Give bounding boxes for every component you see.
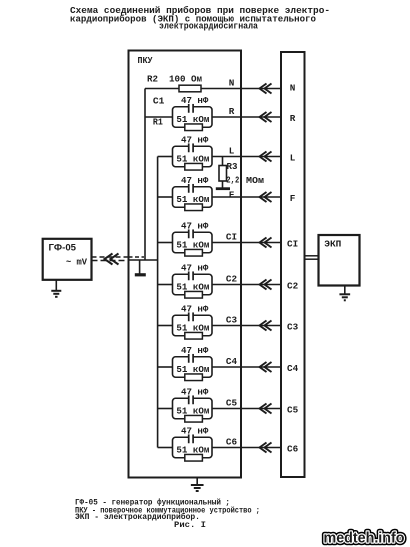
- svg-text:51 кОм: 51 кОм: [176, 154, 209, 164]
- svg-text:47 нФ: 47 нФ: [181, 387, 209, 397]
- svg-text:C1: C1: [153, 97, 165, 107]
- svg-text:R2: R2: [147, 75, 158, 85]
- svg-text:2,2: 2,2: [226, 176, 239, 186]
- svg-text:F: F: [290, 193, 296, 204]
- svg-text:N: N: [290, 83, 296, 94]
- svg-text:R: R: [290, 113, 296, 124]
- svg-text:C5: C5: [226, 398, 238, 409]
- svg-text:Рис. I: Рис. I: [174, 522, 206, 530]
- svg-text:51 кОм: 51 кОм: [176, 282, 209, 292]
- svg-text:47 нФ: 47 нФ: [181, 176, 209, 186]
- svg-text:электрокардиосигнала: электрокардиосигнала: [159, 21, 258, 32]
- svg-text:C2: C2: [226, 274, 238, 285]
- svg-text:51 кОм: 51 кОм: [176, 115, 209, 125]
- svg-text:C3: C3: [226, 315, 238, 326]
- svg-text:medteh.info: medteh.info: [324, 529, 405, 546]
- svg-text:51 кОм: 51 кОм: [176, 240, 209, 250]
- svg-text:ГФ-05: ГФ-05: [49, 243, 77, 253]
- svg-text:C6: C6: [226, 437, 238, 448]
- svg-text:~ mV: ~ mV: [66, 257, 87, 268]
- svg-text:МОм: МОм: [246, 176, 264, 186]
- svg-text:51 кОм: 51 кОм: [176, 195, 209, 205]
- svg-text:ЭКП: ЭКП: [324, 239, 341, 250]
- svg-text:47 нФ: 47 нФ: [181, 221, 209, 231]
- svg-text:47 нФ: 47 нФ: [181, 263, 209, 273]
- svg-text:ЭКП - электрокардиоприбор.: ЭКП - электрокардиоприбор.: [75, 513, 200, 522]
- svg-text:51 кОм: 51 кОм: [176, 365, 209, 375]
- svg-text:47 нФ: 47 нФ: [181, 304, 209, 314]
- svg-text:L: L: [290, 153, 296, 164]
- svg-text:47 нФ: 47 нФ: [181, 135, 209, 145]
- svg-text:47 нФ: 47 нФ: [181, 96, 209, 106]
- svg-text:C5: C5: [287, 405, 299, 416]
- svg-text:ПКУ: ПКУ: [138, 56, 154, 66]
- svg-text:51 кОм: 51 кОм: [176, 445, 209, 455]
- svg-text:47 нФ: 47 нФ: [181, 426, 209, 436]
- svg-text:CI: CI: [287, 239, 298, 250]
- svg-text:L: L: [229, 146, 235, 157]
- svg-text:C6: C6: [287, 444, 299, 455]
- svg-text:F: F: [229, 190, 235, 201]
- svg-text:C4: C4: [226, 356, 238, 367]
- svg-text:R1: R1: [153, 118, 164, 128]
- svg-text:C3: C3: [287, 322, 299, 333]
- svg-text:N: N: [229, 78, 235, 89]
- svg-text:R3: R3: [227, 162, 238, 172]
- svg-text:51 кОм: 51 кОм: [176, 406, 209, 416]
- svg-text:100 Ом: 100 Ом: [169, 75, 202, 85]
- svg-text:CI: CI: [226, 232, 237, 243]
- svg-text:51 кОм: 51 кОм: [176, 323, 209, 333]
- svg-text:R: R: [229, 106, 235, 117]
- svg-text:C4: C4: [287, 363, 299, 374]
- svg-text:47 нФ: 47 нФ: [181, 346, 209, 356]
- svg-text:C2: C2: [287, 281, 299, 292]
